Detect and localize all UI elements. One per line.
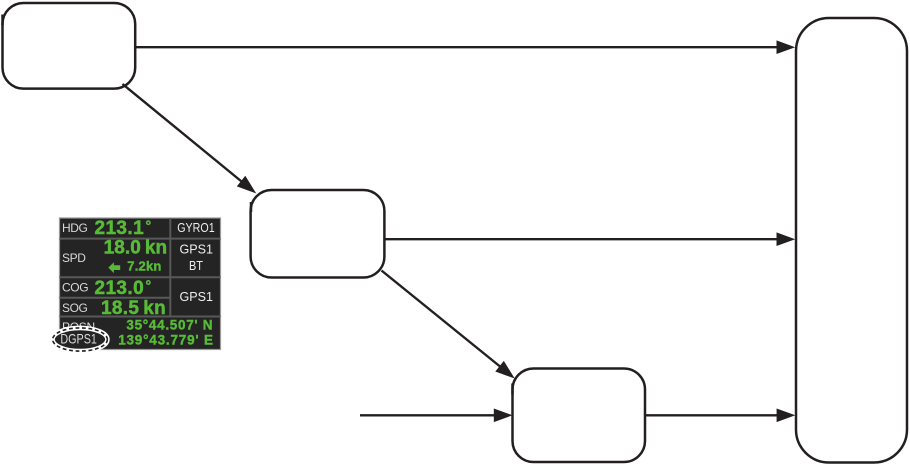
svg-text:SPD: SPD [62,251,86,265]
arrowhead into C [495,361,514,379]
svg-text:GYRO1: GYRO1 [177,220,215,235]
degree ring for 213.1 [147,221,150,224]
DGPS1 callout ellipse (dark fill + white band) [53,328,108,351]
panel column divider [169,218,171,317]
panel row separator 2 [60,276,221,278]
stub on box A left edge [1,15,4,26]
svg-text:213.0: 213.0 [95,278,145,299]
svg-text:18.5 kn: 18.5 kn [101,298,166,319]
degree ring for 213.0 [147,281,150,284]
panel row separator 3 (left part only) [60,297,171,299]
svg-text:SOG: SOG [62,301,88,315]
svg-text:139°43.779' E: 139°43.779' E [118,332,214,347]
DGPS1 callout dashed stroke on band [53,328,108,351]
svg-text:35°44.507' N: 35°44.507' N [126,317,213,332]
svg-text:DGPS1: DGPS1 [60,332,97,347]
stub on box C left edge [511,384,514,395]
svg-text:BT: BT [189,258,203,273]
box B (middle unit) [251,190,385,278]
panel row separator 1 [60,238,221,240]
arrowhead into D (middle) [777,232,796,246]
wire B to C (diagonal) [382,271,503,369]
box D (tall right unit) [796,18,907,463]
arrowhead into D (top) [777,40,796,54]
panel row separator 4 [60,316,221,318]
wire A to D [134,46,778,48]
arrowhead into B [237,176,256,194]
green left arrow icon [108,262,120,273]
svg-text:7.2kn: 7.2kn [127,259,161,274]
wire B to D [385,238,779,240]
wire into C (horizontal from left) [360,414,495,416]
wire A to B (diagonal) [123,84,245,184]
svg-text:18.0 kn: 18.0 kn [104,237,168,258]
svg-text:GPS1: GPS1 [180,289,214,304]
instrument display panel background [60,218,221,350]
svg-text:213.1: 213.1 [95,218,145,239]
svg-text:GPS1: GPS1 [180,241,214,256]
box C (bottom unit) [513,369,646,463]
stub on box B left edge [250,202,253,212]
arrowhead into D (bottom) [777,409,796,423]
wire C to D [645,414,779,416]
box A (top-left unit) [3,3,136,89]
svg-text:HDG: HDG [62,221,88,235]
arrowhead into C (left edge) [494,409,513,423]
svg-text:COG: COG [62,281,88,295]
